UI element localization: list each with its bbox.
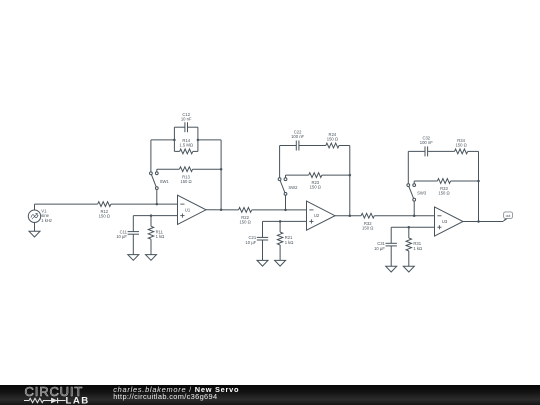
svg-text:1 kΩ: 1 kΩ: [156, 234, 165, 239]
svg-text:LAB: LAB: [66, 395, 90, 405]
wire SW3 throw A up to series RC feedback: [407, 151, 409, 183]
node: box right: [197, 139, 200, 142]
wire SW1 throw B up to R13: [156, 169, 158, 172]
wire U2 noninverting input: [263, 220, 307, 222]
capacitor C12 10 nF: [174, 112, 198, 132]
node: SW1 common joins U1 inverting input: [156, 203, 159, 206]
wire R22 to U2 inverting input: [252, 209, 307, 211]
svg-text:10 µF: 10 µF: [374, 246, 385, 251]
node: SW3 common joins U3 inverting input: [413, 214, 416, 217]
capacitor C31 10 uF: [374, 227, 397, 266]
svg-text:150 Ω: 150 Ω: [239, 220, 250, 225]
wire R32 to U3 inverting input: [374, 215, 434, 217]
capacitor C32 100 nF: [420, 135, 433, 156]
node: stage1 feedback joins output: [220, 209, 223, 212]
wire R13 to right vertical: [193, 168, 222, 170]
svg-text:100 nF: 100 nF: [420, 140, 433, 145]
wire V1 to R12: [35, 203, 98, 205]
wire R24 to right vertical: [339, 145, 350, 147]
resistor R23 150 Ohm: [309, 173, 322, 190]
ground below C31: [386, 266, 397, 272]
svg-text:150 Ω: 150 Ω: [362, 225, 373, 230]
svg-text:U2: U2: [314, 213, 320, 218]
ground below C21: [257, 260, 268, 266]
node: box left: [173, 139, 176, 142]
wire SW2 throw B up to R23: [285, 175, 287, 178]
wire SW3 throw B up to R33: [413, 181, 415, 184]
op-amp U1: [178, 195, 207, 224]
svg-text:SW1: SW1: [160, 179, 170, 184]
node: C11/R11 junction: [150, 214, 153, 217]
svg-text:SW3: SW3: [417, 191, 427, 196]
wire feedback right vertical down to U1 output: [220, 140, 222, 210]
svg-text:150 Ω: 150 Ω: [310, 185, 321, 190]
svg-text:SW2: SW2: [288, 185, 298, 190]
svg-text:150 Ω: 150 Ω: [327, 136, 338, 141]
node: C31/R31 junction: [408, 226, 411, 229]
svg-text:10 µF: 10 µF: [245, 240, 256, 245]
resistor R22 150 Ohm: [239, 208, 252, 225]
node: R23 joins right vertical: [349, 174, 352, 177]
svg-text:U1: U1: [185, 207, 191, 212]
wire SW2 common down to input node: [285, 195, 287, 210]
wire R23 to right vertical: [322, 174, 350, 176]
resistor R13 150 Ohm: [179, 167, 192, 184]
svg-text:150 Ω: 150 Ω: [455, 142, 466, 147]
voltage source V1 (sine 1 kHz): [28, 204, 52, 231]
CircuitLab logo: resistor-diode wire: [24, 398, 66, 404]
resistor R11 1 kOhm: [148, 216, 164, 255]
svg-text:1 kHz: 1 kHz: [41, 218, 52, 223]
node: stage3 feedback joins output: [477, 220, 480, 223]
parallel RC box frame (C12 // R14): [173, 127, 175, 151]
svg-text:150 Ω: 150 Ω: [438, 191, 449, 196]
wire stage2 feedback right vertical: [349, 146, 351, 216]
ground below R21: [275, 260, 286, 266]
svg-text:1.5 MΩ: 1.5 MΩ: [179, 142, 193, 147]
ground below R11: [146, 255, 157, 261]
wire SW1 throw A up to feedback RC box: [150, 140, 152, 172]
resistor R12 150 Ohm: [98, 202, 111, 219]
node: stage2 feedback joins output: [349, 214, 352, 217]
wire SW1 common down to input node: [156, 190, 158, 205]
resistor R32 150 Ohm: [361, 213, 374, 230]
wire R33 to right vertical: [451, 180, 479, 182]
wire stage3 feedback right vertical: [478, 151, 480, 221]
node out flag: [503, 212, 513, 222]
capacitor C22 100 nF: [291, 130, 304, 151]
op-amp U2: [307, 201, 336, 230]
svg-text:http://circuitlab.com/c36g694: http://circuitlab.com/c36g694: [113, 392, 217, 401]
switch SW1 (SPDT): [150, 172, 170, 190]
resistor R33 150 Ohm: [437, 179, 450, 196]
capacitor C11 10 uF: [116, 216, 139, 255]
node: C21/R21 junction: [279, 220, 282, 223]
wire U1 noninverting input: [133, 215, 177, 217]
ground below V1: [29, 231, 40, 237]
svg-text:150 Ω: 150 Ω: [99, 214, 110, 219]
resistor R31 1 kOhm: [406, 227, 422, 266]
switch SW2 (SPDT): [278, 178, 298, 196]
node: R13 joins right vertical: [220, 168, 223, 171]
wire U3 noninverting input: [391, 226, 434, 228]
wire U2 output to R32: [335, 215, 361, 217]
svg-text:100 nF: 100 nF: [291, 134, 304, 139]
svg-text:U3: U3: [442, 219, 448, 224]
svg-text:10 nF: 10 nF: [181, 117, 192, 122]
svg-text:150 Ω: 150 Ω: [180, 179, 191, 184]
resistor R14 1.5 MOhm: [174, 138, 198, 154]
svg-text:1 kΩ: 1 kΩ: [413, 246, 422, 251]
ground below C11: [128, 255, 139, 261]
wire SW3 common down to input node: [413, 201, 415, 216]
svg-text:1 kΩ: 1 kΩ: [285, 240, 294, 245]
resistor R24 150 Ohm: [326, 132, 339, 148]
wire C22 to R24: [299, 145, 326, 147]
svg-text:out: out: [506, 214, 511, 218]
wire R12 to U1 inverting input: [111, 203, 178, 205]
wire U1 output to R22: [206, 209, 239, 211]
resistor R34 150 Ohm: [455, 138, 468, 154]
wire SW2 throw A up to series RC feedback: [279, 146, 281, 178]
wire C32 to R34: [428, 150, 455, 152]
resistor R21 1 kOhm: [277, 221, 293, 260]
switch SW3 (SPDT): [407, 184, 427, 201]
wire U3 output to out flag: [463, 221, 503, 223]
wire box right to feedback right vertical: [198, 139, 221, 141]
ground below R31: [403, 266, 414, 272]
wire R34 to right vertical: [468, 150, 479, 152]
node: SW2 common joins U2 inverting input: [284, 209, 287, 212]
op-amp U3: [435, 207, 464, 236]
capacitor C21 10 uF: [245, 221, 268, 260]
svg-text:10 µF: 10 µF: [116, 234, 127, 239]
node: R33 joins right vertical: [477, 180, 480, 183]
